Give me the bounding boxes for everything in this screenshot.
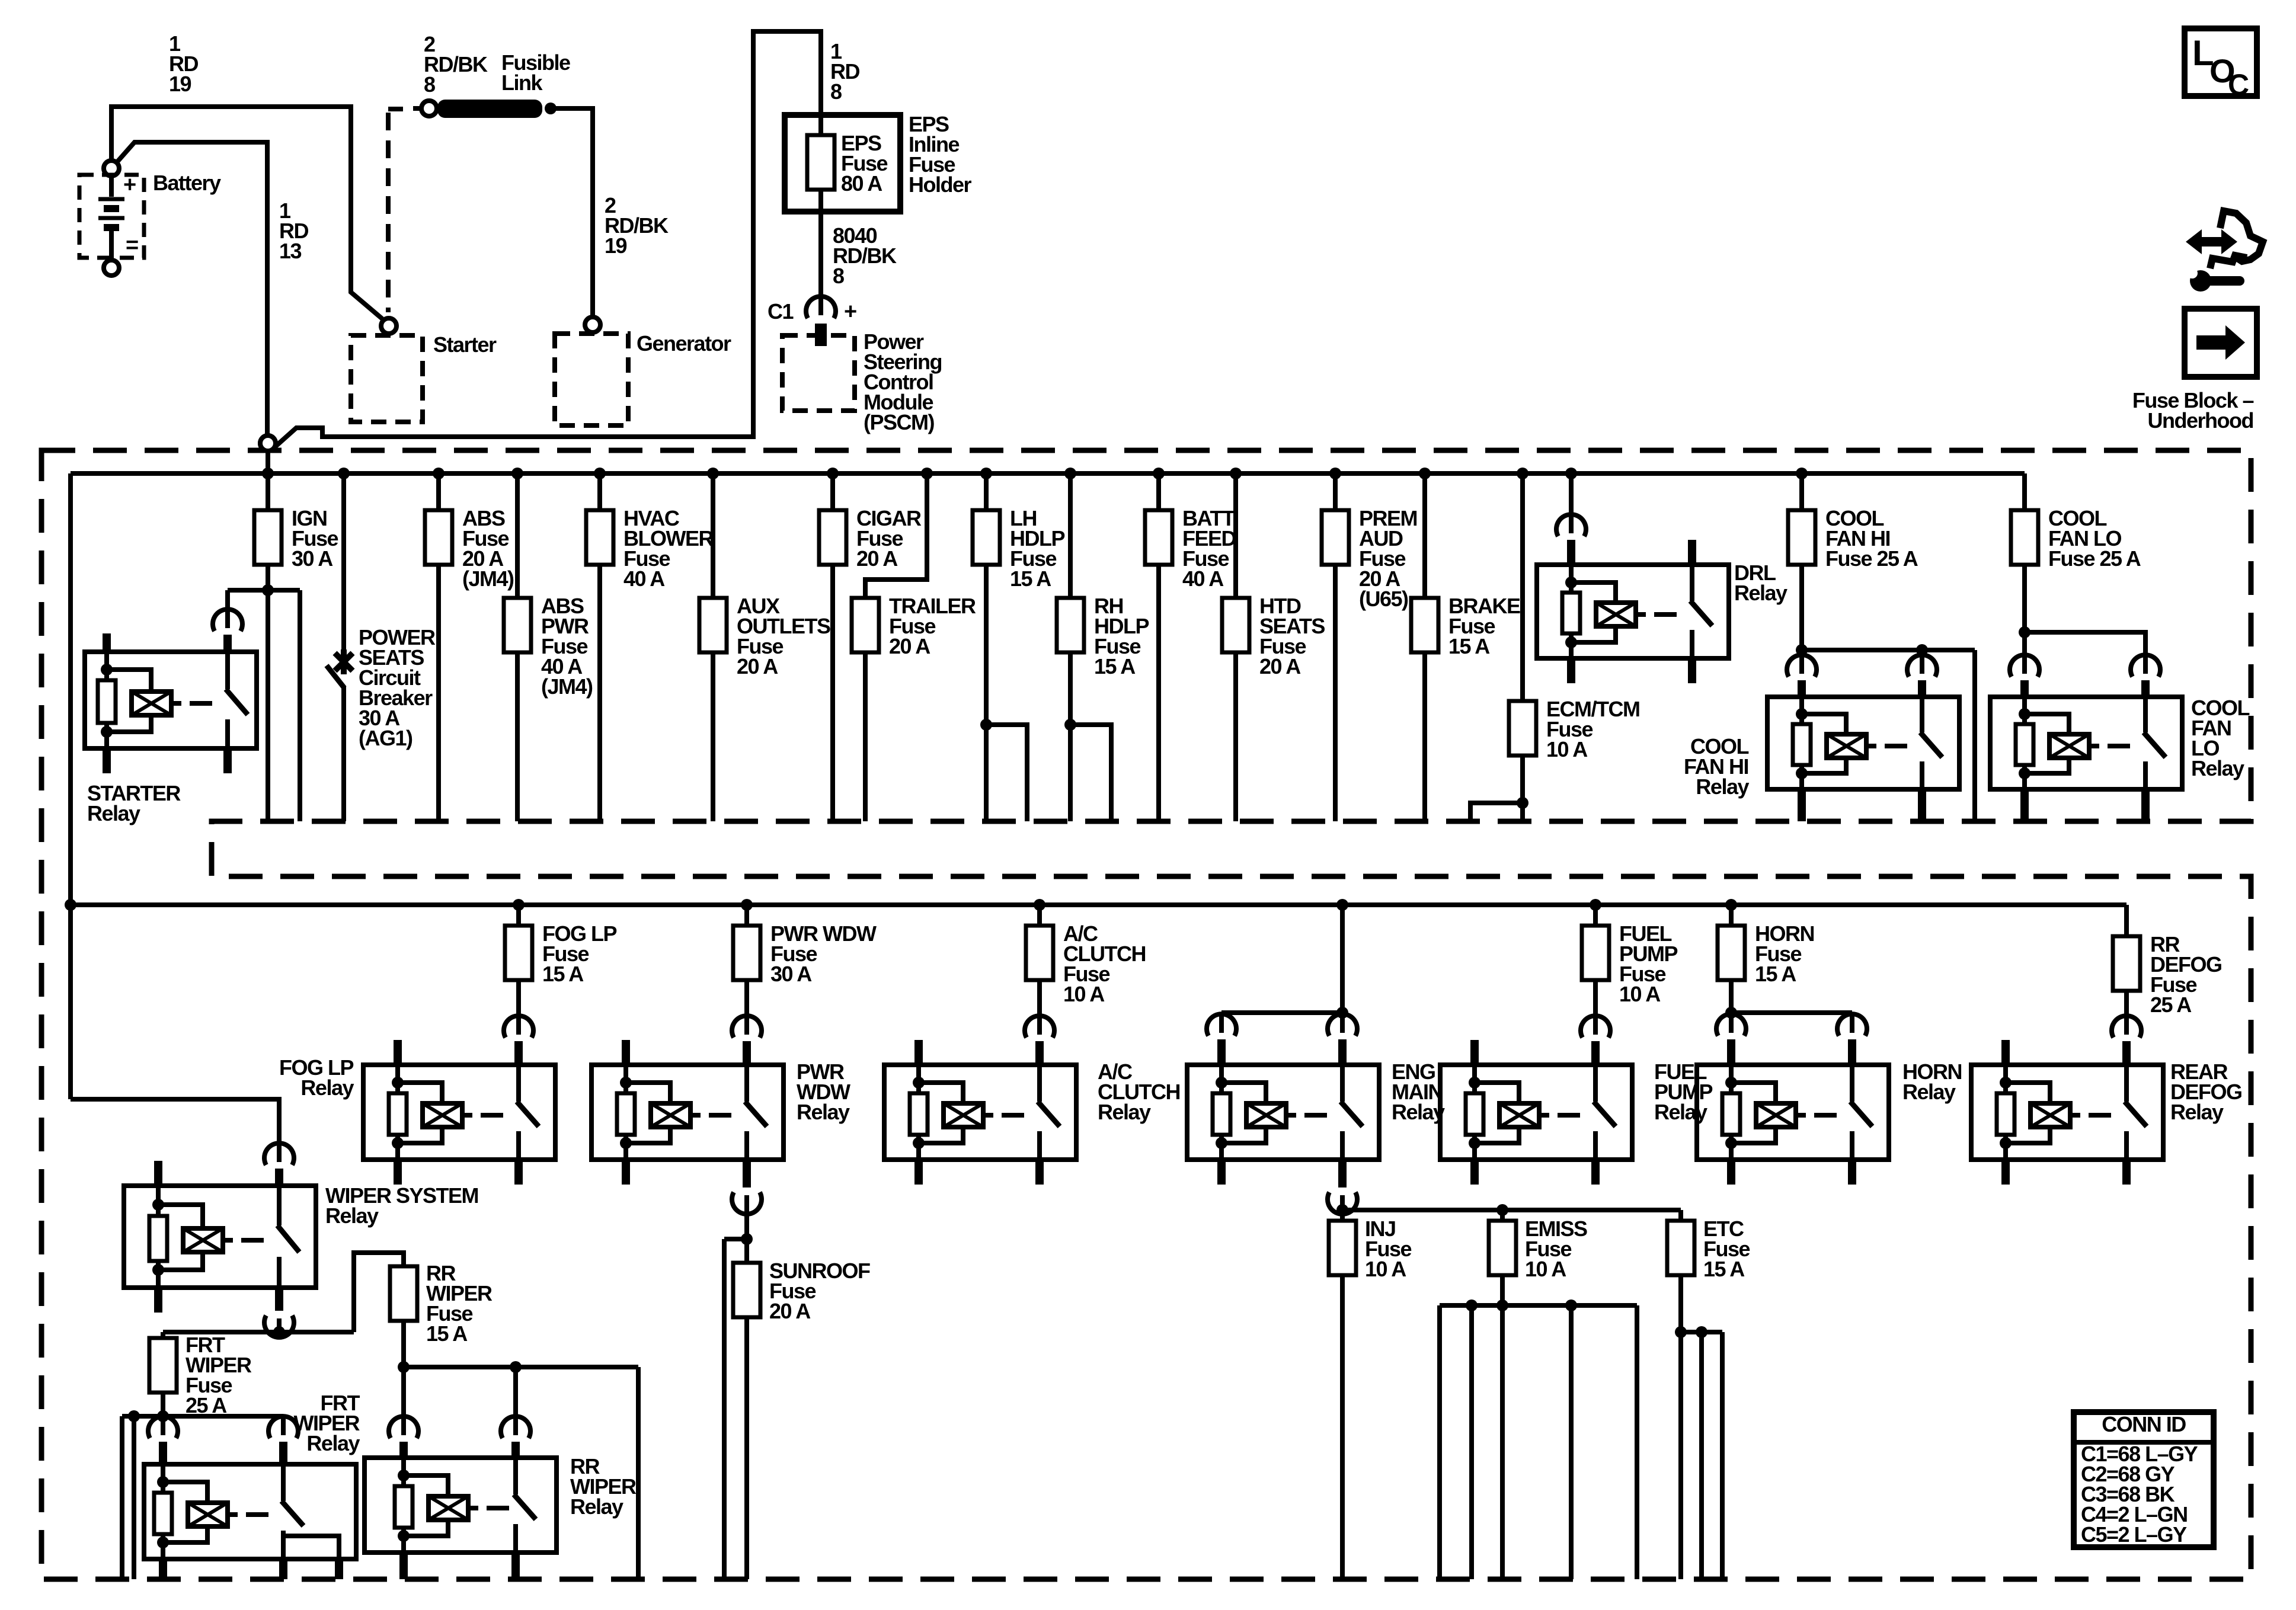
svg-text:FRTWIPERRelay: FRTWIPERRelay	[293, 1391, 360, 1455]
RR DEFOG fuse 25 A	[2124, 905, 2129, 936]
ENG MAIN relay	[1207, 1014, 1236, 1036]
fusible link	[413, 106, 421, 111]
svg-text:ECM/TCMFuse10 A: ECM/TCMFuse10 A	[1546, 697, 1639, 761]
RR WIPER distribution	[398, 1361, 410, 1373]
FRT WIPER junction	[157, 1410, 169, 1422]
COOL FAN HI fuse 25 A	[1796, 468, 1808, 479]
wire 1 RD 13	[117, 142, 267, 435]
svg-text:PWR WDWFuse30 A: PWR WDWFuse30 A	[770, 921, 877, 986]
svg-text:TRAILERFuse20 A: TRAILERFuse20 A	[889, 594, 976, 658]
svg-text:+: +	[123, 172, 136, 197]
connector circle at fuse block boundary	[260, 436, 276, 451]
svg-text:COOLFAN HIRelay: COOLFAN HIRelay	[1684, 734, 1749, 799]
connector C1 to PSCM	[806, 296, 836, 318]
PSCM box	[782, 335, 855, 411]
BRAKE fuse 15 A	[1419, 468, 1431, 479]
HORN fuse 15 A	[1725, 899, 1737, 911]
svg-text:COOLFAN LOFuse 25 A: COOLFAN LOFuse 25 A	[2048, 506, 2141, 571]
connector circle at fuse block boundary	[260, 436, 276, 451]
starter box	[351, 335, 423, 422]
svg-text:BATTFEEDFuse40 A: BATTFEEDFuse40 A	[1182, 506, 1236, 591]
svg-text:=: =	[126, 233, 138, 258]
svg-text:FusibleLink: FusibleLink	[501, 50, 570, 95]
EMISS fuse 10 A	[1500, 1210, 1505, 1221]
generator box	[555, 334, 628, 425]
right arrow icon box	[2185, 309, 2257, 377]
svg-text:RRWIPERRelay: RRWIPERRelay	[570, 1454, 637, 1519]
svg-text:2RD/BK8: 2RD/BK8	[424, 32, 488, 97]
PREM AUD fuse 20 A (U65)	[1329, 468, 1341, 479]
svg-text:EPSInlineFuseHolder: EPSInlineFuseHolder	[909, 112, 972, 197]
svg-text:RHHDLPFuse15 A: RHHDLPFuse15 A	[1094, 594, 1149, 678]
svg-text:EMISSFuse10 A: EMISSFuse10 A	[1525, 1217, 1587, 1281]
svg-text:DRLRelay: DRLRelay	[1734, 561, 1787, 605]
main bus	[71, 471, 2025, 476]
starter connector circle	[381, 318, 396, 334]
svg-text:FUELPUMPFuse10 A: FUELPUMPFuse10 A	[1619, 921, 1677, 1006]
TRAILER fuse 20 A	[921, 468, 933, 479]
WIPER SYSTEM relay	[264, 1143, 294, 1165]
svg-text:PowerSteeringControlModule(PSC: PowerSteeringControlModule(PSCM)	[864, 329, 942, 434]
FOG LP relay	[504, 1016, 533, 1038]
COOL FAN LO fuse 25 A	[2022, 473, 2027, 510]
svg-text:C1: C1	[768, 299, 794, 324]
svg-text:1RD19: 1RD19	[169, 31, 198, 96]
svg-text:FOG LPRelay: FOG LPRelay	[279, 1055, 354, 1100]
CIGAR fuse 20 A	[827, 468, 839, 479]
service icon: double arrow, hood outline, wrench	[2186, 229, 2237, 254]
svg-text:Fuse Block –Underhood: Fuse Block –Underhood	[2132, 388, 2254, 433]
BATT FEED fuse 40 A	[1153, 468, 1165, 479]
PWR WDW relay output to SUNROOF	[743, 1160, 751, 1188]
wire 1 RD 19 battery feed	[111, 107, 382, 319]
EPS fuse 80 A	[818, 115, 823, 135]
A/C CLUTCH fuse 10 A	[1034, 899, 1045, 911]
COOL FAN LO relay	[2010, 655, 2039, 677]
svg-text:+: +	[844, 299, 856, 324]
HORN relay	[1716, 1014, 1746, 1036]
svg-text:POWERSEATSCircuitBreaker30 A(A: POWERSEATSCircuitBreaker30 A(AG1)	[359, 625, 436, 750]
svg-text:AUXOUTLETSFuse20 A: AUXOUTLETSFuse20 A	[737, 594, 830, 678]
svg-text:IGNFuse30 A: IGNFuse30 A	[292, 506, 338, 571]
svg-text:HVACBLOWERFuse40 A: HVACBLOWERFuse40 A	[623, 506, 714, 591]
svg-text:ENGMAINRelay: ENGMAINRelay	[1392, 1060, 1445, 1124]
EPS inline fuse holder box	[785, 115, 900, 212]
COOL FAN HI distribution	[1796, 644, 1808, 656]
A/C CLUTCH relay	[1025, 1016, 1054, 1038]
svg-text:RRWIPERFuse15 A: RRWIPERFuse15 A	[426, 1261, 493, 1346]
SUNROOF fuse 20 A	[733, 1263, 760, 1317]
HVAC BLOWER fuse 40 A	[594, 468, 606, 479]
RR WIPER fuse 15 A	[354, 1253, 404, 1332]
FRT WIPER relay	[148, 1416, 178, 1438]
ABS PWR fuse 40 A (JM4)	[511, 468, 523, 479]
svg-text:ABSFuse20 A(JM4): ABSFuse20 A(JM4)	[462, 506, 514, 591]
FOG LP fuse 15 A	[513, 899, 525, 911]
svg-text:Starter: Starter	[433, 332, 497, 357]
PWR WDW relay	[732, 1016, 762, 1038]
svg-text:RRDEFOGFuse25 A: RRDEFOGFuse25 A	[2150, 932, 2222, 1017]
svg-text:SUNROOFFuse20 A: SUNROOFFuse20 A	[769, 1259, 870, 1323]
svg-text:Generator: Generator	[637, 331, 731, 356]
INJ fuse 10 A	[1329, 1221, 1356, 1275]
svg-text:BRAKEFuse15 A: BRAKEFuse15 A	[1448, 594, 1520, 658]
svg-text:C1=68 L–GYC2=68 GYC3=68 BKC4=2: C1=68 L–GYC2=68 GYC3=68 BKC4=2 L–GNC5=2 …	[2081, 1442, 2198, 1547]
fuse block outline (dashed)	[41, 450, 2251, 1579]
HORN relay feed split	[1725, 1007, 1737, 1019]
DRL relay	[1565, 468, 1577, 479]
svg-text:FOG LPFuse15 A: FOG LPFuse15 A	[542, 921, 616, 986]
wire 8040 RD/BK 8	[818, 212, 823, 306]
WIPER SYSTEM relay output	[275, 1288, 283, 1311]
FUEL PUMP relay	[1581, 1016, 1610, 1038]
wire battery to EPS feed	[274, 31, 821, 447]
ECM/TCM fuse 10 A	[1517, 468, 1528, 479]
svg-text:FUELPUMPRelay: FUELPUMPRelay	[1654, 1060, 1712, 1124]
svg-text:HORNFuse15 A: HORNFuse15 A	[1755, 921, 1814, 986]
svg-text:INJFuse10 A: INJFuse10 A	[1365, 1217, 1412, 1281]
svg-text:FRTWIPERFuse25 A: FRTWIPERFuse25 A	[186, 1333, 252, 1417]
svg-text:A/CCLUTCHFuse10 A: A/CCLUTCHFuse10 A	[1063, 921, 1146, 1006]
battery B1	[104, 161, 119, 176]
ABS fuse 20 A (JM4)	[433, 468, 445, 479]
svg-text:ABSPWRFuse40 A(JM4): ABSPWRFuse40 A(JM4)	[541, 594, 593, 699]
svg-text:EPSFuse80 A: EPSFuse80 A	[841, 131, 888, 196]
svg-text:PWRWDWRelay: PWRWDWRelay	[797, 1060, 850, 1124]
svg-text:LHHDLPFuse15 A: LHHDLPFuse15 A	[1010, 506, 1064, 591]
PWR WDW fuse 30 A	[741, 899, 753, 911]
COOL FAN LO distribution	[2019, 626, 2030, 638]
svg-text:COOLFANLORelay: COOLFANLORelay	[2191, 696, 2250, 780]
svg-text:WIPER SYSTEMRelay: WIPER SYSTEMRelay	[325, 1183, 478, 1228]
generator connector circle	[585, 317, 600, 332]
svg-text:Battery: Battery	[153, 171, 221, 195]
REAR DEFOG relay	[2112, 1016, 2141, 1038]
LOC icon box	[2185, 28, 2257, 96]
svg-text:HORNRelay: HORNRelay	[1902, 1060, 1962, 1104]
LH HDLP fuse 15 A	[980, 468, 992, 479]
RR WIPER relay	[389, 1416, 418, 1438]
svg-text:1RD8: 1RD8	[830, 39, 859, 104]
svg-text:ETCFuse15 A: ETCFuse15 A	[1703, 1217, 1750, 1281]
bus left leg down to second bus	[68, 473, 73, 1099]
ETC fuse 15 A	[1678, 1210, 1683, 1221]
POWER SEATS circuit breaker 30 A (AG1)	[338, 468, 350, 479]
IGN output junction	[262, 584, 274, 596]
ENG MAIN output distribution	[1338, 1160, 1347, 1188]
ETC output distribution	[1675, 1326, 1687, 1338]
svg-text:2RD/BK19: 2RD/BK19	[605, 193, 669, 258]
COOL FAN HI relay	[1787, 655, 1817, 677]
CONN ID table	[2074, 1412, 2214, 1547]
RH HDLP fuse 15 A	[1064, 468, 1076, 479]
FRT WIPER fuse 25 A	[149, 1338, 177, 1393]
wire fusible link to starter (dashed)	[388, 107, 403, 111]
svg-text:PREMAUDFuse20 A(U65): PREMAUDFuse20 A(U65)	[1359, 506, 1417, 611]
svg-text:A/CCLUTCHRelay: A/CCLUTCHRelay	[1098, 1060, 1180, 1124]
WIPER SYSTEM relay feed	[71, 1099, 279, 1153]
AUX OUTLETS fuse 20 A	[707, 468, 719, 479]
IGN fuse 30 A	[262, 468, 274, 479]
svg-text:CIGARFuse20 A: CIGARFuse20 A	[856, 506, 922, 571]
svg-text:HTDSEATSFuse20 A: HTDSEATSFuse20 A	[1259, 594, 1325, 678]
second bus	[71, 902, 2126, 907]
svg-text:COOLFAN HIFuse 25 A: COOLFAN HIFuse 25 A	[1825, 506, 1918, 571]
FUEL PUMP fuse 10 A	[1590, 899, 1601, 911]
ENG MAIN relay feed	[1336, 899, 1348, 911]
svg-text:8040RD/BK8: 8040RD/BK8	[833, 223, 897, 288]
HTD SEATS fuse 20 A	[1230, 468, 1242, 479]
svg-text:REARDEFOGRelay: REARDEFOGRelay	[2170, 1060, 2242, 1124]
EMISS output distribution	[1440, 1303, 1637, 1308]
svg-text:CONN ID: CONN ID	[2102, 1412, 2186, 1436]
STARTER relay	[85, 652, 257, 748]
svg-text:STARTERRelay: STARTERRelay	[87, 781, 181, 825]
svg-text:C: C	[2228, 68, 2249, 101]
svg-text:1RD13: 1RD13	[279, 199, 308, 263]
